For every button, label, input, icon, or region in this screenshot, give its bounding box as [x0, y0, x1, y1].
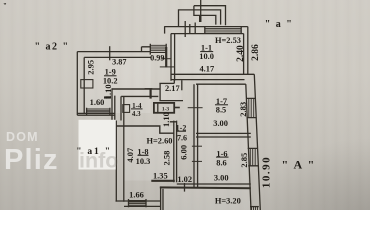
watermark: [4, 130, 118, 176]
room 1-1 south wall lower: [171, 79, 245, 81]
bathroom 1-3 box: [154, 103, 174, 113]
svg-text:" А ": " А ": [282, 158, 316, 172]
svg-text:info: info: [79, 149, 118, 173]
svg-text:1.02: 1.02: [177, 175, 192, 184]
svg-text:1-1: 1-1: [201, 43, 212, 52]
corridor door tick upper: [188, 107, 203, 109]
svg-text:1-7: 1-7: [216, 97, 227, 106]
svg-text:" а ": " а ": [265, 19, 294, 30]
svg-text:1-9: 1-9: [105, 68, 116, 77]
room 1-8 south wall: [151, 180, 175, 182]
corridor 1-2 right wall: [194, 84, 198, 187]
svg-text:2.86: 2.86: [251, 44, 261, 61]
svg-text:2.40: 2.40: [236, 45, 246, 62]
svg-text:": ": [3, 2, 7, 10]
hall tick: [181, 80, 183, 90]
svg-text:10.0: 10.0: [199, 52, 214, 61]
lower room top wall: [160, 186, 251, 189]
room 1-9 left wall outer: [76, 52, 78, 116]
underline 1-1: [200, 51, 213, 53]
window 1.60 in 1-9 bottom wall: [87, 108, 110, 115]
window in north wall of room 1-1: [205, 27, 241, 34]
window of room 1-7 in east wall: [246, 98, 256, 117]
fraction underlines: [104, 52, 229, 158]
svg-text:4.3: 4.3: [132, 110, 141, 118]
svg-text:2.85: 2.85: [239, 153, 249, 168]
window of room 1-6 in east wall: [248, 148, 258, 165]
svg-text:4.17: 4.17: [199, 65, 214, 74]
svg-text:8.5: 8.5: [216, 106, 226, 115]
underline 1-9: [104, 75, 117, 77]
svg-text:DOM: DOM: [6, 130, 39, 144]
corridor south wall: [177, 183, 251, 185]
tick on stub: [145, 88, 153, 90]
room 1-9 left wall inner: [83, 57, 85, 113]
svg-text:2.17: 2.17: [165, 84, 180, 93]
balcony door tick 1: [184, 21, 186, 37]
svg-text:Н=2.53: Н=2.53: [215, 36, 241, 45]
svg-text:3.00: 3.00: [214, 174, 229, 183]
balcony leader line: [200, 0, 202, 22]
room 1-9 inner top wall: [84, 56, 150, 58]
svg-text:3.00: 3.00: [213, 119, 228, 128]
room interior light fills: [85, 34, 251, 210]
tick on 1-9 top wall: [109, 46, 111, 60]
svg-text:2.58: 2.58: [161, 151, 171, 166]
east outer wall inner line: [246, 84, 251, 210]
room 1-1 right wall outer: [247, 27, 249, 75]
balcony outline outer: [194, 6, 226, 26]
underline 1-4: [131, 108, 143, 110]
svg-text:10.3: 10.3: [136, 157, 151, 166]
southwest outer wall: [116, 201, 161, 206]
svg-text:7.6: 7.6: [177, 134, 187, 143]
balcony outline inner: [179, 10, 221, 26]
corridor door tick mid: [192, 145, 202, 147]
svg-text:6.00: 6.00: [179, 145, 189, 160]
room 1-4 left wall: [121, 96, 124, 120]
hall box top: [159, 82, 174, 84]
door tick y66.9: [160, 66, 175, 68]
left wall below white block: [116, 121, 124, 202]
dark dash below 1-9: [104, 96, 111, 98]
room 1-1 south wall upper: [171, 73, 254, 75]
svg-text:1.66: 1.66: [129, 190, 144, 199]
svg-text:1-8: 1-8: [137, 148, 148, 157]
svg-text:Pliz: Pliz: [4, 144, 59, 176]
underline 1-7: [215, 104, 228, 106]
underline 1-2: [177, 130, 187, 132]
room 1-1 left wall: [171, 34, 175, 81]
svg-text:10.2: 10.2: [103, 77, 118, 86]
underline 1-8: [138, 154, 149, 156]
lower room left wall: [161, 187, 163, 210]
north wall inner line room 1-1: [171, 33, 244, 35]
vent box in room 1-4: [123, 105, 130, 113]
svg-text:4.07: 4.07: [125, 147, 135, 163]
svg-text:2.95: 2.95: [85, 60, 95, 75]
passage wall right of 1-9: [112, 88, 115, 120]
hall box left wall: [159, 83, 161, 100]
room 1-4 outer top wall: [112, 88, 160, 90]
svg-text:0.99: 0.99: [150, 54, 164, 63]
svg-text:1.35: 1.35: [153, 171, 168, 180]
svg-text:1.10: 1.10: [161, 112, 171, 127]
connector below bathroom: [170, 121, 177, 123]
corridor 1-2 left wall: [174, 121, 177, 183]
hall box bottom wall: [159, 100, 183, 102]
white block overlay: [79, 120, 116, 170]
window 0.99 in wall: [150, 44, 166, 55]
svg-text:10.90: 10.90: [261, 156, 273, 188]
balcony door tick 2: [189, 24, 191, 33]
window 1.66 in southwest wall: [129, 199, 147, 207]
north wall outer line room 1-1: [164, 26, 248, 28]
bathroom door tick: [174, 107, 180, 109]
step wall top of room 1-8: [116, 126, 174, 133]
room 1-4 inner top wall: [121, 95, 158, 97]
svg-text:1-4: 1-4: [132, 102, 142, 110]
door tick y58.7: [161, 58, 171, 60]
door tick 1.02: [184, 183, 186, 192]
svg-text:8.6: 8.6: [216, 158, 226, 167]
svg-text:" а2 ": " а2 ": [34, 42, 69, 53]
svg-text:2.83: 2.83: [238, 102, 248, 117]
east outer wall outer line: [254, 74, 260, 210]
divider wall 1-7/1-6: [196, 133, 251, 137]
balcony door tick 3: [194, 23, 196, 34]
niche wall below window 0.99: [165, 47, 167, 67]
window at bottom east wall: [250, 207, 259, 210]
room 1-7 top wall: [196, 83, 246, 85]
bathroom 1-3 inner divider: [157, 104, 159, 113]
svg-text:1-6: 1-6: [216, 149, 227, 158]
balcony outline middle: [194, 6, 216, 25]
north wall left cap: [164, 27, 166, 34]
room 1-9 north wall outer: [77, 51, 150, 53]
corridor door tick lower: [192, 160, 202, 162]
svg-text:1.10: 1.10: [103, 84, 113, 99]
svg-text:3.87: 3.87: [112, 58, 126, 67]
room 1-9 north wall step: [142, 47, 151, 52]
svg-text:1-2: 1-2: [176, 123, 187, 132]
svg-text:1-3: 1-3: [162, 107, 170, 113]
svg-text:Н=2.60: Н=2.60: [147, 137, 173, 146]
room 1-1 right wall inner: [243, 34, 245, 75]
hall box connector: [173, 80, 175, 84]
wall stub between 1-9 and hall: [150, 88, 152, 98]
room 1-9 bottom wall: [77, 113, 115, 115]
vent box in room 1-9: [81, 80, 93, 88]
underline 1-6: [216, 156, 229, 158]
svg-text:Н=3.20: Н=3.20: [215, 196, 241, 205]
